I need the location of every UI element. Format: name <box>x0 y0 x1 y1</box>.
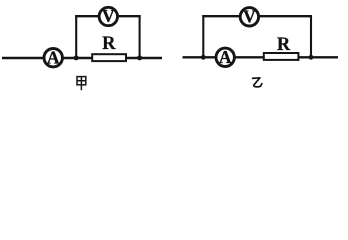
wire: circuit 甲 main horizontal <box>2 57 162 59</box>
node: circuit 乙 right junction dot <box>309 55 314 60</box>
svg-text:V: V <box>243 7 256 27</box>
wire: circuit 乙 top horizontal of voltmeter loop <box>202 15 312 17</box>
wire: circuit 乙 left vertical of voltmeter loop <box>202 15 204 57</box>
voltmeter V (circuit 甲) <box>99 7 117 25</box>
node: circuit 甲 left junction dot <box>74 55 79 60</box>
label 乙 (drawn glyph) <box>253 78 262 87</box>
wire: circuit 甲 left vertical of voltmeter loop <box>75 15 77 58</box>
ammeter A (circuit 甲) <box>44 49 62 67</box>
node: circuit 乙 left junction dot <box>201 55 206 60</box>
svg-text:A: A <box>219 47 232 67</box>
ammeter A (circuit 乙) <box>216 48 234 66</box>
wire: circuit 甲 top horizontal of voltmeter loop <box>75 15 140 17</box>
svg-text:V: V <box>102 6 115 26</box>
wire: circuit 甲 right vertical of voltmeter loop <box>139 15 141 58</box>
svg-text:R: R <box>102 34 116 54</box>
voltmeter V (circuit 乙) <box>240 8 258 26</box>
wire: circuit 乙 right vertical of voltmeter loop <box>310 15 312 57</box>
resistor R (circuit 甲) <box>92 54 126 61</box>
label 甲 (drawn glyph) <box>77 77 86 91</box>
node: circuit 甲 right junction dot <box>137 55 142 60</box>
svg-text:A: A <box>47 47 60 67</box>
wire: circuit 乙 main horizontal <box>183 56 339 58</box>
svg-text:R: R <box>277 35 291 55</box>
resistor R (circuit 乙) <box>264 53 299 60</box>
